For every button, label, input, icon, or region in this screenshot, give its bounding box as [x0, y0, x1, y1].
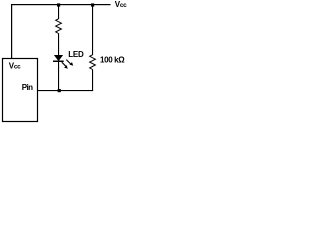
LED D1 (triangle, cathode bar, emission arrows) [53, 55, 73, 68]
IC box U1 [3, 59, 38, 122]
wire Vcc top rail [11, 4, 111, 5]
svg-text:LED: LED [68, 50, 84, 59]
svg-text:Pin: Pin [22, 83, 33, 92]
wire Pin net (IC Pin to bottom-right corner) [37, 90, 93, 91]
resistor R1 (series with LED) [56, 19, 62, 34]
resistor R2 100 kOhm [90, 55, 96, 70]
svg-text:Vcc: Vcc [9, 61, 21, 70]
wire left drop from Vcc rail to IC top [11, 4, 12, 59]
wire right branch (100k resistor bottom to corner) [92, 70, 93, 92]
wire right branch (Vcc rail down to 100k resistor) [92, 4, 93, 55]
node junction dot at Vcc rail / 100k branch [91, 3, 94, 6]
wire LED branch (Vcc rail down to resistor top) [58, 4, 59, 19]
wire LED branch (resistor bottom through LED to Pin net) [58, 33, 59, 91]
svg-text:Vcc: Vcc [115, 0, 127, 9]
node junction dot at Vcc rail / LED branch [57, 3, 60, 6]
node junction dot at Pin net / LED branch [58, 89, 61, 92]
svg-text:100 kΩ: 100 kΩ [100, 56, 125, 65]
